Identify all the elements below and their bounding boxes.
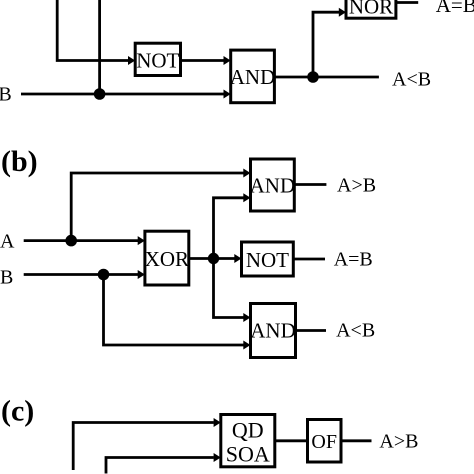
wire B branch elbow into bottom AND (b) [104, 275, 251, 350]
wire NOT output to A=B (b) [293, 258, 325, 261]
node junction on XOR output (b) [208, 253, 219, 264]
svg-text:B: B [0, 266, 13, 288]
gate XOR (b) [145, 231, 189, 285]
node junction on A line (b) [65, 235, 77, 247]
node junction on B line (a) [94, 88, 106, 100]
gate AND bottom (b) [250, 304, 296, 358]
wire NOR output to A=B (a) [396, 1, 418, 4]
gate NOR (a) [346, 0, 396, 18]
svg-text:SOA: SOA [226, 442, 270, 467]
wire A input line into XOR (b) [24, 236, 145, 245]
wire AND output to A&lt;B (a) [274, 76, 379, 79]
gate AND (a) [230, 50, 276, 103]
gate QD SOA (c) [221, 415, 275, 467]
gate NOT (b) [242, 242, 294, 276]
wire input 2 elbow into QD SOA (c) [106, 453, 221, 474]
wire elbow up into NOR (a) [313, 8, 346, 77]
svg-text:AND: AND [250, 174, 296, 198]
wire elbow up into top AND (b) [214, 193, 251, 258]
svg-text:A=B: A=B [436, 0, 474, 17]
gate NOT (a) [135, 43, 180, 75]
svg-text:(c): (c) [1, 395, 34, 428]
gate OF (c) [308, 420, 342, 463]
svg-text:(b): (b) [1, 145, 38, 178]
wire input 1 elbow into QD SOA (c) [73, 418, 221, 470]
svg-text:NOT: NOT [136, 49, 179, 73]
svg-text:A<B: A<B [336, 320, 375, 342]
svg-text:A>B: A>B [337, 174, 376, 196]
node junction on AND output (a) [307, 71, 319, 83]
svg-text:A: A [0, 231, 15, 253]
svg-text:A=B: A=B [334, 249, 373, 271]
wire elbow down into bottom AND (b) [214, 259, 251, 323]
svg-text:XOR: XOR [145, 247, 189, 271]
wire QD SOA output into OF (c) [275, 439, 308, 442]
svg-text:AND: AND [230, 65, 276, 89]
gate AND top (b) [250, 159, 296, 211]
wire vertical from top to B line (a) [98, 0, 101, 94]
svg-text:QD: QD [232, 418, 264, 443]
wire B input line into AND (a) [21, 90, 231, 99]
wire B input line into XOR (b) [24, 270, 145, 279]
node junction on B line (b) [98, 269, 110, 281]
wire OF output to A&gt;B (c) [341, 439, 372, 442]
wire A branch elbow into top AND (b) [71, 169, 250, 241]
wire top AND output to A&gt;B (b) [294, 183, 326, 186]
svg-text:A>B: A>B [379, 431, 418, 453]
wire XOR output into NOT (b) [189, 254, 242, 263]
svg-text:A<B: A<B [392, 68, 431, 90]
svg-text:B: B [0, 84, 12, 106]
svg-text:NOR: NOR [349, 0, 393, 18]
svg-text:OF: OF [311, 431, 337, 453]
wire A-branch elbow into NOT (a) [57, 0, 135, 65]
svg-text:NOT: NOT [246, 248, 289, 272]
wire NOT output into AND (a) [181, 56, 231, 65]
svg-text:AND: AND [250, 319, 296, 343]
wire bottom AND output to A&lt;B (b) [296, 329, 327, 332]
